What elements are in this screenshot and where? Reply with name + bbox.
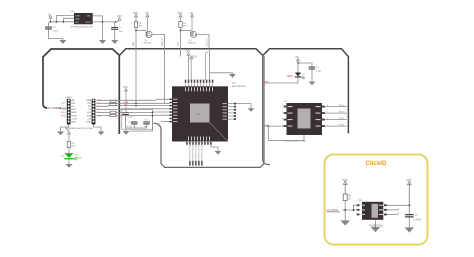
ground ClickID left [340, 220, 350, 225]
wire Q1 drain rail down [164, 49, 166, 103]
svg-text:SDA: SDA [132, 41, 135, 46]
wire U2 pin8 right [325, 106, 347, 108]
svg-text:5V: 5V [48, 12, 51, 16]
wire SCL to MCU [97, 111, 111, 113]
REGULATOR-SECTION [45, 11, 123, 44]
MCU pin name dashes bottom [188, 137, 210, 141]
resistor R6 series [116, 114, 170, 116]
MCU top pads [185, 80, 214, 83]
wire U2 pin5 right [325, 125, 347, 127]
LEVEL-SHIFTER-1 [132, 11, 164, 49]
U2 pin name dashes left [288, 106, 293, 127]
wire Q2 gate rail down [180, 49, 182, 57]
connector J2 red net labels [96, 100, 101, 117]
wire SDA to MCU [97, 115, 111, 117]
wire caps bottom rail [126, 115, 147, 131]
CLICKID-BOX [325, 155, 428, 245]
GREEN-LED-CHAIN [62, 128, 82, 168]
svg-text:3V3: 3V3 [123, 85, 128, 89]
MCU inner pad [190, 104, 210, 123]
junction dots I2C [135, 102, 137, 104]
connector J1 pin name labels [71, 99, 77, 123]
wire TX to MCU [97, 108, 170, 111]
wire LED1 top tee [298, 63, 312, 67]
svg-text:MISO: MISO [61, 112, 67, 114]
wire R1 to CS rail [344, 201, 346, 211]
wire Q2 drain to room edge [197, 35, 209, 50]
LEVEL-SHIFTER-2 [178, 11, 210, 49]
svg-text:MOSI: MOSI [71, 115, 77, 117]
room 3 left lower edge [263, 56, 270, 165]
power symbol 3V3 caps [125, 88, 128, 112]
wire 5V to LED anode [297, 63, 299, 73]
room 3 outline (serial IC section) [263, 49, 349, 134]
svg-text:2: 2 [282, 111, 283, 113]
wire LED to ground [68, 159, 70, 164]
wire C7 to ground [311, 70, 313, 82]
svg-text:SCK: SCK [71, 109, 76, 111]
capacitor C1 4.7uF [45, 22, 63, 39]
wire MCU right GND elbow [236, 104, 251, 109]
wire MCU AVDD to ground elbow [210, 73, 233, 74]
power symbol 5V Q1 [146, 14, 149, 31]
svg-text:5V: 5V [190, 11, 193, 15]
svg-text:0.47µF: 0.47µF [414, 219, 422, 222]
svg-text:+3.3V: +3.3V [71, 118, 77, 120]
svg-text:0.1µF: 0.1µF [127, 117, 133, 119]
wire room edge to U2 pin4 [264, 125, 284, 127]
svg-text:DS28E06AQ: DS28E06AQ [370, 225, 384, 228]
wire U3 GND pin down [375, 220, 377, 227]
capacitor C8 0.1uF [127, 121, 138, 128]
capacitor C2 1uF [111, 22, 123, 33]
svg-text:SCL_5V: SCL_5V [207, 38, 209, 46]
svg-text:LED1: LED1 [287, 76, 293, 78]
wire MCU bottom GND [211, 145, 218, 151]
wire J2 GND down [94, 125, 102, 132]
ground ClickID right [405, 227, 415, 232]
wire Q1 output down to SDA rail [135, 49, 137, 103]
svg-text:3V3: 3V3 [342, 178, 347, 182]
I2C-UART-WIRES [97, 99, 170, 131]
svg-text:AVR128DB48T: AVR128DB48T [232, 85, 247, 88]
svg-text:1µF: 1µF [119, 31, 123, 33]
tick labels on programming wires [189, 155, 202, 159]
power symbol 5V LED1 [297, 58, 300, 63]
junction dots input [50, 21, 52, 23]
ground MCU bottom [215, 151, 222, 155]
svg-text:BSS138: BSS138 [188, 43, 196, 45]
U3 right pads [384, 204, 387, 215]
series resistors R7 R8 [110, 100, 116, 102]
resistor R2 [134, 22, 143, 28]
wire PWM to MCU [97, 99, 170, 100]
svg-text:3V3: 3V3 [117, 14, 122, 18]
connector J2 right strip [92, 99, 96, 125]
svg-text:4.7µF: 4.7µF [53, 31, 59, 33]
MIKROBUS-CONNECTORS [47, 97, 104, 135]
wire U2 pin6 right [325, 119, 347, 121]
regulator U4 body [71, 11, 93, 24]
ground C2 [111, 30, 118, 44]
power symbol 3V3 Q2 [179, 14, 182, 21]
wire U3 IO pin right [387, 204, 409, 206]
svg-text:8: 8 [327, 105, 328, 107]
power symbol 5V input [49, 15, 52, 21]
MCU programming stub wires [190, 145, 202, 161]
caps group box [122, 109, 153, 130]
MCU-U1 [161, 49, 254, 165]
MCU top pin stubs [186, 83, 213, 87]
SERIAL-NUMBER-IC-U2 [264, 101, 348, 143]
MCU right pads [234, 103, 236, 120]
wire INT to MCU [97, 102, 170, 105]
ground caps [123, 131, 130, 135]
power symbol 5V LD1 [68, 132, 71, 142]
svg-text:VIN: VIN [75, 22, 79, 24]
ROOM-OUTLINES [43, 49, 348, 168]
MCU pin name dashes right [223, 103, 228, 119]
U2 pin number labels right [327, 105, 328, 127]
wire LED cathode to room edge [263, 78, 298, 84]
MCU left pads [170, 99, 173, 123]
svg-text:7: 7 [327, 111, 328, 113]
capacitor C9 1uF [143, 120, 150, 128]
LED LD1 green [64, 153, 81, 160]
svg-text:SERIAL NMBR IC GND: SERIAL NMBR IC GND [284, 140, 306, 143]
svg-text:3V3: 3V3 [406, 178, 411, 182]
ground LD1 [66, 164, 73, 168]
ROOM3-LED-CIRCUIT [263, 55, 322, 86]
U3 inner pad [372, 204, 379, 218]
wire J1 GND down [61, 125, 69, 132]
wire Q1 drain to room edge [153, 35, 165, 50]
power symbol 3V3 out [116, 18, 121, 22]
series resistors R5 R6 [110, 111, 116, 113]
MCU bottom pads [186, 142, 212, 145]
programming terminal pads [189, 161, 202, 166]
wire R3 to junction [180, 28, 182, 50]
wire CS_HOST rail [327, 205, 356, 212]
wire U2 exposed pad loop [268, 126, 304, 140]
svg-text:5V: 5V [66, 128, 69, 132]
svg-text:MISO: MISO [71, 112, 77, 114]
ground J1 [57, 132, 64, 136]
svg-text:GREEN: GREEN [74, 157, 82, 159]
power symbol 3V3 MCU b [190, 56, 193, 79]
U2 body [287, 103, 323, 135]
power symbol 3V3 ClickID left [343, 181, 347, 194]
U2 pin name dashes right [316, 106, 321, 127]
room 2 outline bottom [154, 56, 265, 167]
U2 pin number labels [282, 105, 283, 127]
svg-text:SCK: SCK [62, 109, 67, 111]
ClickID border [325, 155, 428, 245]
capacitor C3 0.47uF [405, 214, 422, 222]
wire MCU pin hook [206, 52, 209, 80]
wire CS_HOST to J1 [58, 107, 67, 109]
svg-text:RST: RST [71, 103, 76, 105]
ground reg out [99, 22, 106, 44]
wire Q2 drain rail down [209, 49, 211, 80]
MCU pin1 diagonal [210, 123, 229, 142]
wire input rail [50, 21, 74, 23]
U2 left pads [284, 106, 287, 127]
svg-text:3V3: 3V3 [133, 11, 138, 15]
capacitor C6 0.1uF [122, 112, 133, 121]
wire U3 NC pin B hook [387, 213, 399, 215]
resistor R3 [179, 22, 188, 28]
wire U2 pin7 right [325, 112, 347, 114]
svg-text:6: 6 [327, 118, 328, 120]
room 1 outline (mikrobus device conn section) [43, 49, 119, 134]
svg-text:PWR1: PWR1 [65, 97, 72, 99]
ground U3 [371, 227, 381, 232]
U2 inner pad [298, 109, 311, 129]
svg-text:LED1: LED1 [264, 81, 270, 83]
U3 pin name dashes right [379, 205, 384, 215]
MCU body [172, 86, 228, 141]
resistor R5 series [116, 111, 170, 113]
power symbol 5V Q2 [191, 14, 194, 31]
svg-text:VOUT: VOUT [85, 22, 91, 24]
svg-text:+5V: +5V [87, 118, 91, 120]
wire EN stub [64, 18, 75, 22]
svg-text:BH18PB3301WHCT-ND: BH18PB3301WHCT-ND [71, 26, 94, 28]
wire C3 to ground [408, 218, 410, 228]
wire CS to ground [344, 210, 346, 220]
svg-text:1: 1 [282, 105, 283, 107]
U3 pin name dashes left [361, 205, 366, 215]
U3 body DS28E06 [362, 202, 383, 220]
transistor Q2 BSS138 [181, 30, 197, 37]
svg-text:5: 5 [327, 124, 328, 126]
power symbol 3V3 ClickID right [407, 182, 411, 214]
wire reg out rail [93, 21, 116, 23]
svg-text:3V3: 3V3 [186, 49, 191, 53]
svg-text:STBY: STBY [75, 16, 81, 18]
U3 left pads [357, 204, 360, 215]
ground MCU top [229, 74, 236, 78]
svg-text:0.1µF: 0.1µF [316, 71, 322, 73]
svg-text:3: 3 [282, 118, 283, 120]
wire reg out top loop [93, 16, 103, 22]
ground C7 [309, 82, 316, 86]
svg-text:5V: 5V [296, 55, 299, 59]
ground reg input [59, 39, 66, 45]
wire RX to MCU [97, 105, 170, 108]
capacitor C7 0.1uF [309, 67, 322, 73]
svg-text:3V3: 3V3 [192, 55, 197, 59]
resistor R1 ClickID [343, 194, 352, 201]
svg-text:SDA: SDA [87, 114, 92, 117]
transistor Q1 BSS138 [136, 30, 152, 37]
svg-text:BSS138: BSS138 [144, 43, 152, 45]
svg-text:GND: GND [86, 121, 91, 123]
wire VIN stub [56, 15, 74, 21]
svg-text:PWM: PWM [86, 100, 91, 102]
svg-text:ClickID: ClickID [366, 160, 388, 167]
svg-text:3V3: 3V3 [178, 11, 183, 15]
svg-text:MOSI: MOSI [61, 115, 67, 117]
svg-text:GND: GND [71, 121, 76, 123]
connector J1 red net labels [61, 103, 67, 117]
power symbol 3V3 MCU a [187, 53, 190, 80]
MCU pin name dashes left [173, 99, 178, 122]
ground J2 [98, 132, 105, 136]
room 2 outline top (MCU section) [119, 49, 262, 56]
wire U3 NC pin A hook [387, 208, 399, 210]
svg-text:SDA_5V: SDA_5V [161, 38, 164, 46]
wire R2 to junction [135, 28, 137, 50]
resistor R4 [67, 142, 76, 148]
diode D1 LED [295, 73, 306, 80]
svg-text:5V: 5V [146, 11, 149, 15]
U2 right pads [322, 106, 325, 127]
svg-text:GND: GND [75, 18, 80, 20]
MCU right pin stubs [228, 104, 234, 120]
MCU pin name dashes top [185, 87, 213, 91]
ground MCU right [248, 108, 255, 112]
power symbol 3V3 Q1 [135, 14, 138, 21]
wire MOSI corner down [130, 116, 153, 132]
wire MCU bottom-left pin corner [161, 121, 170, 123]
connector J1 left strip [67, 99, 71, 125]
svg-text:AN: AN [71, 99, 74, 102]
BYPASS-CAPS-CLUSTER [122, 85, 153, 135]
wire R4 to LED [68, 148, 70, 154]
connector J2 pin name labels [86, 100, 92, 123]
